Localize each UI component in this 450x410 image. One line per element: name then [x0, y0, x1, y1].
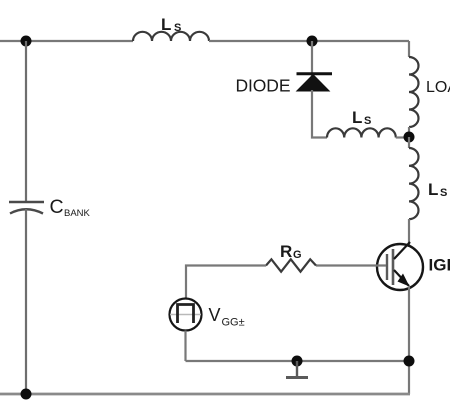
- svg-text:L: L: [161, 15, 171, 34]
- wire gate lead: [316, 264, 386, 266]
- wire diode to middle inductor: [312, 90, 327, 138]
- node junction top-left: [21, 36, 32, 47]
- inductor L1 (Ls top): [133, 32, 209, 41]
- inductor L4 (Ls right): [409, 148, 419, 219]
- label Ls middle: [352, 108, 371, 127]
- svg-text:GG±: GG±: [222, 317, 245, 329]
- wire gate-emitter return: [186, 360, 410, 362]
- wire left bus lower: [25, 209, 27, 394]
- wire bottom bus: [0, 393, 410, 396]
- diode D1: [297, 74, 333, 91]
- node junction bottom-left: [21, 389, 32, 400]
- svg-text:BANK: BANK: [64, 208, 91, 219]
- svg-text:S: S: [364, 115, 371, 127]
- label Ls right: [428, 180, 447, 199]
- node junction diode top: [307, 36, 318, 47]
- source V1 (VGG): [170, 299, 202, 331]
- inductor L3 (LOAD): [409, 57, 419, 127]
- wire diode anode drop: [311, 41, 313, 91]
- wire IGBT emitter drop: [408, 287, 410, 394]
- wire top bus left segment: [0, 40, 133, 42]
- svg-text:G: G: [293, 249, 302, 261]
- label RG: [280, 242, 302, 261]
- svg-text:C: C: [50, 196, 64, 218]
- label CBANK: [50, 196, 91, 219]
- wire node to Ls right: [408, 137, 410, 148]
- transistor Q1 (IGBT): [377, 242, 423, 290]
- svg-text:DIODE: DIODE: [236, 76, 291, 96]
- label VGG±: [209, 305, 245, 329]
- svg-text:S: S: [174, 22, 181, 34]
- svg-text:IGBT: IGBT: [429, 256, 450, 275]
- wire left bus upper: [25, 41, 27, 201]
- ground: [286, 361, 308, 378]
- wire RG to VGG: [186, 266, 266, 299]
- wire Ls right to IGBT collector: [408, 219, 410, 247]
- wire middle inductor to node: [396, 136, 409, 138]
- wire top bus right segment: [209, 40, 409, 42]
- svg-text:L: L: [428, 180, 438, 199]
- resistor R1 (RG): [266, 259, 316, 271]
- svg-text:V: V: [209, 305, 221, 325]
- label Ls top: [161, 15, 181, 34]
- node junction emitter: [404, 356, 415, 367]
- svg-text:L: L: [352, 108, 362, 127]
- svg-text:S: S: [440, 187, 447, 199]
- node junction ground: [292, 356, 303, 367]
- wire load to node: [408, 127, 410, 137]
- node junction mid-right: [404, 132, 415, 143]
- wire right bus top: [408, 41, 410, 57]
- capacitor C1 (CBANK): [9, 202, 44, 214]
- inductor L2 (Ls middle): [327, 128, 396, 137]
- svg-text:LOAD: LOAD: [426, 79, 450, 96]
- wire VGG to bottom rail: [184, 331, 186, 362]
- svg-text:R: R: [280, 242, 292, 261]
